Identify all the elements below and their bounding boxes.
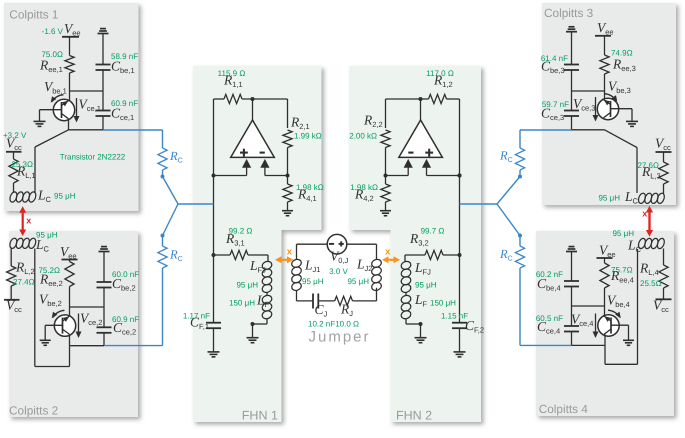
svg-text:95 μH: 95 μH [598, 194, 620, 203]
svg-text:Transistor 2N2222: Transistor 2N2222 [60, 153, 126, 162]
svg-text:Colpitts 4: Colpitts 4 [539, 402, 589, 416]
svg-text:1.99 kΩ: 1.99 kΩ [294, 132, 322, 141]
svg-text:25.5Ω: 25.5Ω [640, 279, 662, 288]
svg-text:FHN 1: FHN 1 [242, 408, 278, 422]
svg-text:-1.6 V: -1.6 V [42, 27, 64, 36]
svg-text:95 μH: 95 μH [54, 192, 76, 201]
svg-text:27.4Ω: 27.4Ω [13, 278, 35, 287]
svg-text:Jumper: Jumper [309, 329, 371, 346]
svg-text:x: x [26, 216, 31, 226]
svg-text:95 μH: 95 μH [415, 281, 437, 290]
svg-text:95 μH: 95 μH [236, 281, 258, 290]
svg-text:95 μH: 95 μH [302, 277, 324, 286]
svg-text:150 μH: 150 μH [229, 299, 255, 308]
svg-text:10.2 nF: 10.2 nF [308, 320, 335, 329]
svg-text:3.0 V: 3.0 V [329, 267, 348, 276]
svg-text:Colpitts 3: Colpitts 3 [544, 6, 594, 20]
svg-text:FHN 2: FHN 2 [396, 408, 432, 422]
svg-text:Colpitts 2: Colpitts 2 [9, 404, 58, 418]
svg-text:10.0 Ω: 10.0 Ω [335, 320, 359, 329]
svg-text:99.7 Ω: 99.7 Ω [421, 227, 445, 236]
svg-text:2.00 kΩ: 2.00 kΩ [349, 132, 377, 141]
svg-text:x: x [642, 209, 647, 219]
svg-text:Colpitts 1: Colpitts 1 [9, 8, 58, 22]
svg-text:x: x [287, 247, 293, 258]
svg-text:150 μH: 150 μH [430, 299, 456, 308]
svg-text:x: x [385, 247, 391, 258]
svg-text:95 μH: 95 μH [347, 277, 369, 286]
